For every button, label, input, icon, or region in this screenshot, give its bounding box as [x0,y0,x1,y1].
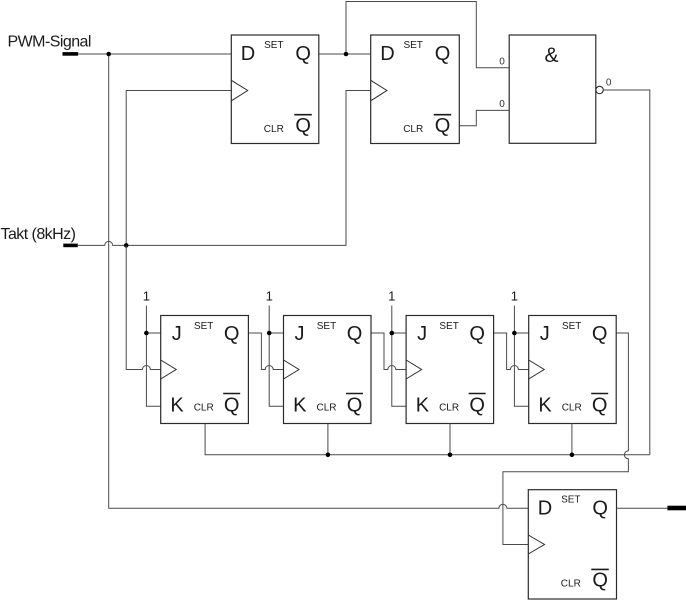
JK flip-flop U5 [284,316,372,424]
wire PWM horizontal to U1 D input [78,53,231,55]
node PWM junction [106,52,111,57]
svg-text:0: 0 [606,78,612,89]
D flip-flop U1 [231,35,318,144]
svg-text:Q: Q [592,395,608,417]
node CLR bus junction U7 [570,453,575,458]
svg-text:Q: Q [347,323,363,345]
wire AND output right then down to CLR bus [603,90,650,455]
node J4 junction [512,331,517,336]
wire CLR stub of U4 and CLR bus [205,424,650,455]
node CLR bus junction U6 [448,453,453,458]
wire CLR stub of U6 [449,424,451,455]
svg-text:SET: SET [439,321,458,332]
svg-text:Q: Q [347,395,363,417]
svg-text:Q: Q [592,323,608,345]
svg-text:1: 1 [266,289,273,304]
svg-text:Q: Q [435,43,451,65]
svg-text:K: K [170,395,184,417]
svg-text:Q: Q [224,323,240,345]
wire constant-1 stub to J/K of U5 [269,306,283,407]
svg-text:CLR: CLR [562,403,582,414]
svg-text:1: 1 [511,289,518,304]
svg-text:Q: Q [295,115,311,137]
node J2 junction [267,331,272,336]
JK flip-flop U7 [529,316,617,424]
D flip-flop U8 [528,490,616,599]
svg-text:J: J [295,323,305,345]
svg-text:SET: SET [403,40,422,51]
wire Takt vertical down to U4 clock with hop [126,245,161,369]
svg-text:CLR: CLR [264,124,284,135]
node Q1 junction [344,52,349,57]
svg-text:SET: SET [194,321,213,332]
JK flip-flop U4 [161,316,249,424]
wire Q of U7 down across CLR bus to clock of U8 [503,333,629,545]
JK flip-flop U6 [406,316,494,424]
svg-text:SET: SET [561,495,580,506]
svg-text:D: D [380,43,394,65]
svg-text:J: J [417,323,427,345]
wire Q2-bar to AND input B [459,110,509,125]
wire constant-1 stub to J/K of U4 [146,306,160,407]
wire Takt vertical up to U1 clock [126,91,231,246]
wire Q of U4 to clock of U5 with hop [248,333,283,370]
wire Q1 to D2 [319,53,371,55]
output terminal [667,506,686,511]
svg-text:J: J [172,323,182,345]
wire Q1 feedback up over top to AND input A [346,2,509,68]
svg-text:Q: Q [295,43,311,65]
svg-text:CLR: CLR [316,403,336,414]
wire Takt horizontal with hop over PWM vertical, to x=346 then up to U2 clock [78,91,371,246]
svg-text:Q: Q [224,395,240,417]
svg-text:K: K [416,395,430,417]
svg-text:1: 1 [143,289,150,304]
input terminal Takt [63,244,78,248]
svg-text:Q: Q [469,395,485,417]
svg-text:J: J [540,323,550,345]
svg-text:CLR: CLR [439,403,459,414]
svg-text:K: K [538,395,552,417]
svg-text:SET: SET [562,321,581,332]
svg-text:Takt (8kHz): Takt (8kHz) [1,226,76,243]
svg-text:Q: Q [592,570,608,592]
svg-text:SET: SET [264,40,283,51]
wire Q of U6 to clock of U7 with hop [494,333,529,370]
svg-text:CLR: CLR [194,403,214,414]
wire CLR stub of U7 [571,424,573,455]
svg-text:D: D [538,498,552,520]
svg-text:&: & [544,44,558,67]
svg-text:PWM-Signal: PWM-Signal [8,33,91,50]
D flip-flop U2 [371,35,460,144]
inversion bubble AND output [596,86,603,93]
svg-text:CLR: CLR [561,579,581,590]
node J1 junction [144,331,149,336]
AND gate U3 [509,35,596,143]
wire Q of U5 to clock of U6 with hop [371,333,406,370]
wire CLR stub of U5 [327,424,329,455]
node Takt junction [124,243,129,248]
svg-text:CLR: CLR [403,124,423,135]
svg-text:K: K [293,395,307,417]
wire constant-1 stub to J/K of U7 [514,306,528,407]
svg-text:SET: SET [317,321,336,332]
svg-text:0: 0 [499,57,505,68]
input terminal PWM-Signal [63,52,79,56]
wire PWM vertical down to bottom D input, then right with hop to U8 [109,54,529,508]
node J3 junction [390,331,395,336]
svg-text:Q: Q [592,498,608,520]
wire Q of U8 to output terminal [617,507,668,509]
svg-text:Q: Q [469,323,485,345]
svg-text:Q: Q [435,115,451,137]
node CLR bus junction U5 [326,453,331,458]
wire constant-1 stub to J/K of U6 [392,306,406,407]
svg-text:1: 1 [388,289,395,304]
svg-text:0: 0 [499,99,505,110]
svg-text:D: D [241,43,255,65]
